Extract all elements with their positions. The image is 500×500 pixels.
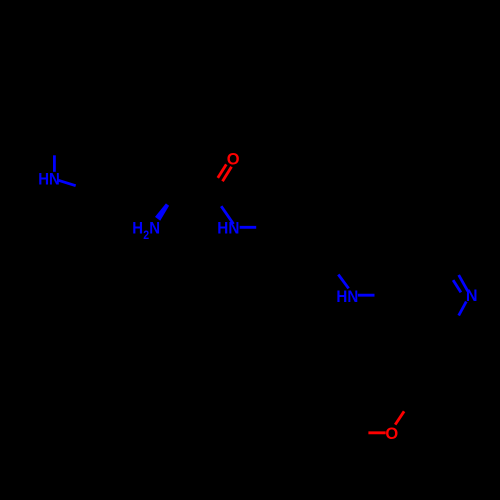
wire CH3a-N1 top half [53, 139, 56, 155]
svg-text:H: H [132, 220, 143, 238]
label H2N (amine N2) [132, 220, 160, 242]
label O (methoxy O3) [385, 424, 398, 443]
wire N1q=C2q inner blue half [453, 280, 461, 292]
wire N1-CH3a blue half (vertical stub) [53, 155, 56, 172]
svg-text:O: O [227, 149, 240, 168]
svg-text:O: O [385, 424, 398, 443]
wire Cco-N3 blue half [221, 206, 233, 224]
svg-text:HN: HN [217, 219, 239, 238]
wedge bond Calpha-N2 (solid blue wedge) [155, 203, 169, 220]
wire Cco-N3 half [212, 194, 222, 207]
svg-text:N: N [466, 286, 478, 305]
wire N1q-C8a blue half [459, 302, 467, 316]
label HN (amide N3) [217, 219, 239, 238]
wire C6-O3 red half [395, 411, 404, 424]
wire C3-Calpha [133, 186, 169, 204]
wire N1-C2 half [76, 186, 93, 192]
wire C3q-N4 blue half [338, 275, 348, 289]
wire Calpha-Cco [168, 194, 211, 205]
wire C6-O3 half [404, 399, 411, 411]
wire C3q-N4 half [329, 261, 339, 275]
wire N3-C1c blue half [240, 226, 257, 229]
wire Cco=O1 red half line1 [218, 164, 227, 178]
svg-text:HN: HN [38, 171, 60, 189]
label O (carbonyl O1) [227, 149, 240, 168]
label HN (methylamino N1) [38, 171, 60, 189]
wire Cco=O1 red half line2 [223, 167, 232, 181]
svg-text:HN: HN [336, 287, 358, 306]
quinoline ring bonds (black) [391, 261, 411, 296]
wire N4-C4 half [375, 294, 392, 297]
wire N3-C1c half [256, 226, 272, 229]
wire O3-CH3o half [352, 431, 369, 434]
svg-text:N: N [149, 220, 160, 238]
wire C2-C3 [93, 186, 133, 191]
svg-text:2: 2 [143, 229, 149, 242]
aromatic inner lines (black) [400, 270, 416, 297]
wire N1q=C2q axis blue half [459, 275, 468, 291]
wire N1-C2 blue half [58, 180, 75, 185]
wire C2v-C3q [289, 261, 329, 265]
label N (quinoline ring N1q) [466, 286, 478, 305]
wire C1c-C2v [272, 228, 289, 264]
wire N4-C4 blue half [358, 294, 375, 297]
label HN (quinolinyl-amine N4) [336, 287, 358, 306]
wire CH3o-O3 red half [368, 431, 385, 434]
wire Cco=O1 black halves [209, 178, 217, 192]
